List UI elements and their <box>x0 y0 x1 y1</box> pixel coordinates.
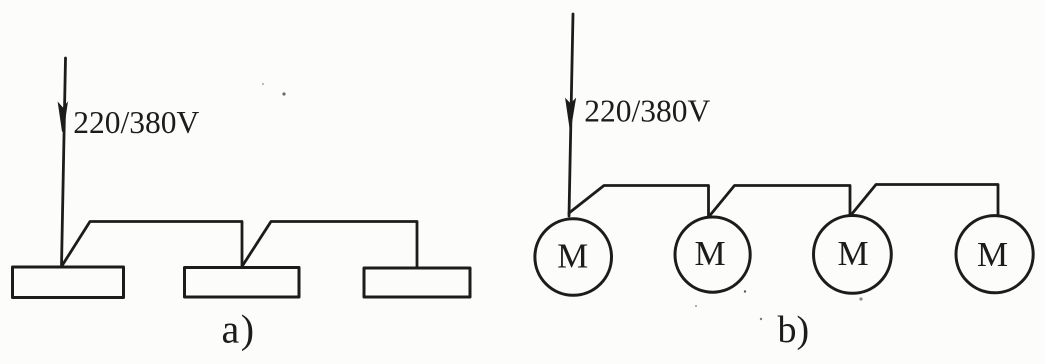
load box 1 (a) <box>13 267 124 298</box>
svg-text:220/380V: 220/380V <box>73 105 199 140</box>
load box 3 (a) <box>364 268 470 297</box>
svg-text:M: M <box>557 237 588 276</box>
motor M2 circle <box>675 217 750 292</box>
svg-text:b): b) <box>778 309 810 351</box>
motor M3 circle <box>814 216 892 294</box>
wire: bus b segment 2 (motor M2 to M3) <box>709 186 850 217</box>
svg-text:M: M <box>694 234 725 273</box>
feed wire (a) 220/380V supply drop <box>62 58 66 267</box>
load box 2 (a) <box>185 268 300 298</box>
svg-text:M: M <box>977 235 1008 274</box>
svg-text:220/380V: 220/380V <box>584 94 710 129</box>
arrowhead (a) <box>59 104 67 132</box>
svg-text:M: M <box>837 234 868 273</box>
wire: bus b segment 1 (motor M1 to M2) <box>569 186 709 217</box>
arrowhead (b) <box>566 100 575 128</box>
wire: bus b segment 3 (motor M3 to M4) <box>851 185 998 216</box>
wire: bus a segment 1 (load 1 to load 2) <box>62 222 243 267</box>
motor M4 circle <box>956 216 1033 293</box>
motor M1 circle <box>535 219 612 296</box>
wire: bus a segment 2 (load 2 to load 3) <box>242 222 417 268</box>
svg-text:a): a) <box>222 307 256 352</box>
feed wire (b) 220/380V supply drop <box>569 14 573 216</box>
